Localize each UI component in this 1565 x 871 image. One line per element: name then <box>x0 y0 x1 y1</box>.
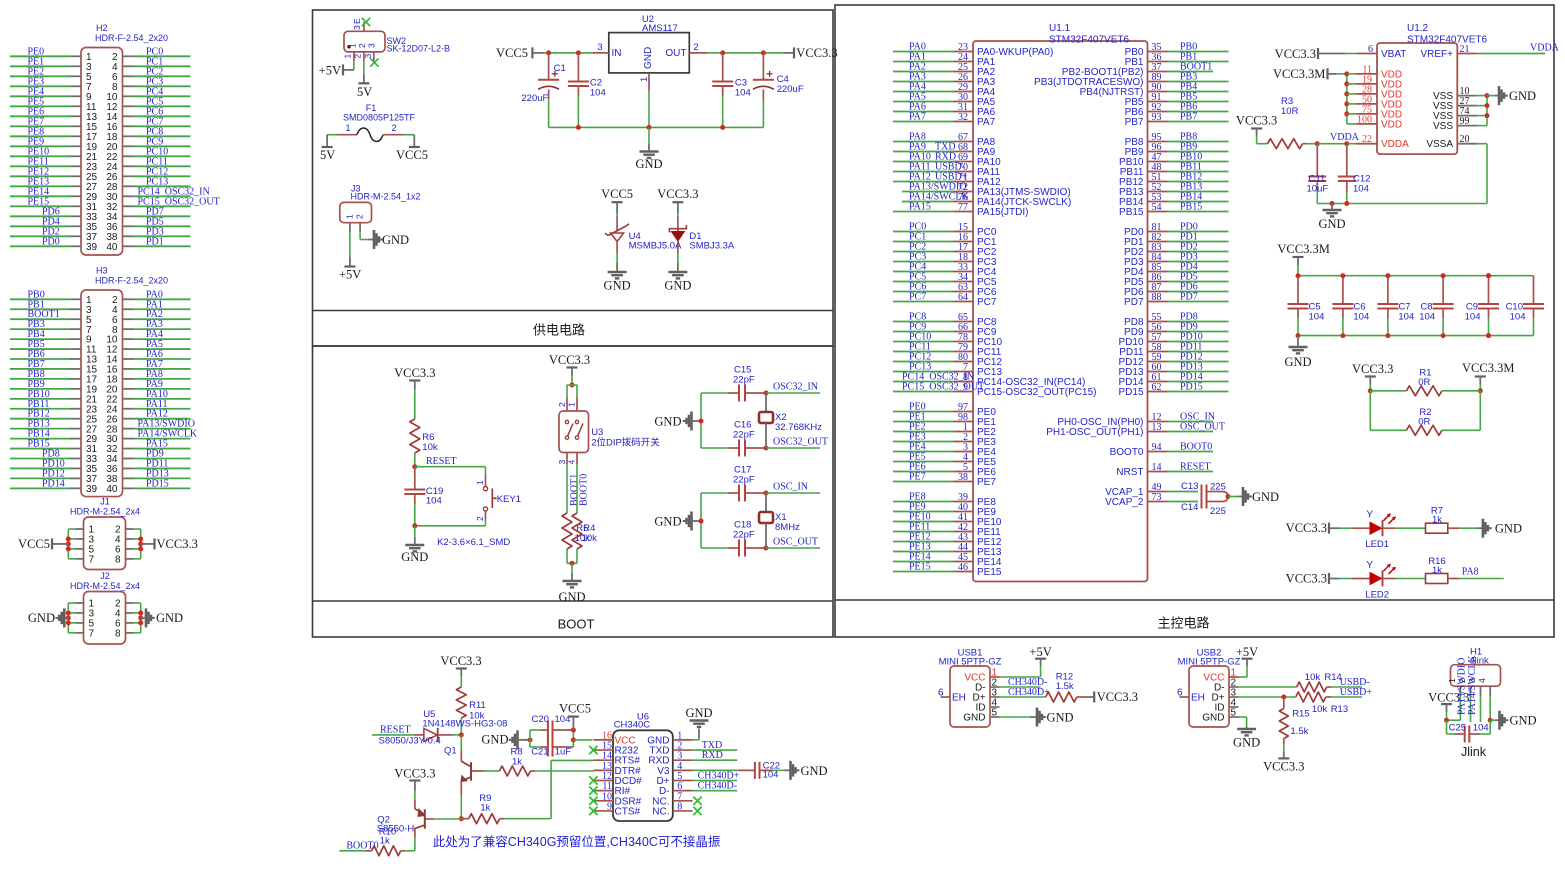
svg-text:OSC32_IN: OSC32_IN <box>773 382 818 393</box>
svg-text:GND: GND <box>643 47 654 69</box>
svg-text:3: 3 <box>352 25 362 30</box>
svg-text:20: 20 <box>1460 134 1470 145</box>
wire PD7 from U1.1 <box>1148 301 1168 303</box>
wire PB5 <box>10 348 70 350</box>
svg-text:225: 225 <box>1210 506 1226 517</box>
wire pin 1 J1 <box>76 528 84 530</box>
wire PD9 from U1.1 <box>1148 331 1168 333</box>
svg-text:RESET: RESET <box>380 724 411 735</box>
svg-text:VREF+: VREF+ <box>1420 49 1453 60</box>
svg-text:此处为了兼容CH340G预留位置,CH340C可不接晶振: 此处为了兼容CH340G预留位置,CH340C可不接晶振 <box>433 834 721 849</box>
svg-text:OUT: OUT <box>665 48 686 59</box>
svg-text:1: 1 <box>348 43 358 48</box>
wire VSS bus <box>1486 96 1488 126</box>
svg-text:40: 40 <box>106 242 118 253</box>
svg-text:GND: GND <box>604 279 631 293</box>
svg-text:46: 46 <box>958 562 968 573</box>
wire PC3 to U1.1 <box>893 261 954 263</box>
svg-text:PD7: PD7 <box>1124 297 1144 308</box>
wire PB0 <box>10 298 70 300</box>
svg-text:VCC3.3: VCC3.3 <box>157 537 198 551</box>
wire PA12 <box>123 418 134 420</box>
junction dots J2 <box>66 610 71 615</box>
wire pin 3 J1 <box>76 538 84 540</box>
wire bus left J1 <box>67 529 69 559</box>
svg-text:J1: J1 <box>100 497 110 507</box>
svg-text:OSC32_OUT: OSC32_OUT <box>773 437 828 448</box>
wire PC1 to U1.1 <box>893 241 954 243</box>
pin 2 of U2 <box>689 52 707 54</box>
svg-text:GND: GND <box>401 550 428 564</box>
pin 1 of J3 to +5V <box>349 223 351 233</box>
pin 2 of H1 <box>1470 686 1472 696</box>
crystal X1 8MHz <box>765 493 767 512</box>
wire PA15 to U1.1 <box>893 211 954 213</box>
node OSC_OUT <box>764 546 769 551</box>
svg-text:RESET: RESET <box>1180 462 1211 473</box>
wire PB9 <box>10 388 70 390</box>
svg-text:R15: R15 <box>1292 709 1309 720</box>
svg-text:J2: J2 <box>100 571 110 581</box>
svg-text:2: 2 <box>693 42 698 53</box>
wire VCC to U6 pin16 <box>573 739 592 741</box>
svg-text:OSC_OUT: OSC_OUT <box>773 537 818 548</box>
svg-text:VCC3.3M: VCC3.3M <box>1273 67 1325 81</box>
wire PE11 <box>10 165 70 167</box>
svg-text:VCC3.3: VCC3.3 <box>1275 47 1316 61</box>
svg-text:LED2: LED2 <box>1365 590 1389 601</box>
svg-text:+5V: +5V <box>319 64 341 78</box>
pin 27 VSS of U1.2 <box>1457 105 1477 107</box>
svg-text:GND: GND <box>156 611 183 625</box>
ground GND under C11/C12 <box>1331 204 1333 210</box>
capacitor C20 104 <box>530 729 541 731</box>
svg-text:C1: C1 <box>554 63 566 74</box>
wire PA14/SWCLK <box>123 438 134 440</box>
wire VCC5 to U2 IN <box>544 52 592 54</box>
node OSC32_IN <box>764 391 769 396</box>
svg-text:8: 8 <box>677 801 682 812</box>
frame BOOT section <box>313 346 834 637</box>
svg-text:1: 1 <box>343 54 353 59</box>
node RESET <box>412 464 417 469</box>
wire PC9 <box>123 145 134 147</box>
svg-text:3: 3 <box>367 43 377 48</box>
wire PC4 to U1.1 <box>893 271 954 273</box>
wire PC13 <box>123 185 134 187</box>
wire decoupling bottom rail <box>1298 335 1534 337</box>
pin 16 VCC of U6 <box>594 739 614 741</box>
wire H1 pin1 to VCC3.3 <box>1459 696 1461 720</box>
wire PD11 from U1.1 <box>1148 351 1168 353</box>
capacitor C22 104 at V3 <box>693 769 739 771</box>
wire pin 4 J2 <box>126 612 134 614</box>
svg-text:GND: GND <box>801 764 828 778</box>
svg-text:GND: GND <box>1284 355 1311 369</box>
wire RESET to KEY1 <box>415 466 486 468</box>
wire PD5 <box>123 225 134 227</box>
svg-text:Q1: Q1 <box>444 746 457 757</box>
capacitor C21 1uF <box>530 746 541 748</box>
switch SW2 <box>344 31 385 52</box>
svg-text:GND: GND <box>635 157 662 171</box>
svg-text:GND: GND <box>654 415 681 429</box>
wire PD8 <box>10 458 70 460</box>
svg-text:9: 9 <box>963 382 968 393</box>
wire PD5 from U1.1 <box>1148 281 1168 283</box>
wire Q2 base <box>425 818 435 820</box>
wire pin 2 J2 <box>126 602 134 604</box>
capacitor C10 104 <box>1533 276 1535 304</box>
svg-text:PD14: PD14 <box>42 478 65 489</box>
pin 2 TXD of U6 <box>673 749 693 751</box>
svg-text:Y: Y <box>1366 510 1373 521</box>
pin 2 of SW2 to 5V <box>363 52 365 61</box>
svg-text:8: 8 <box>115 628 121 639</box>
wire PB15 <box>10 448 70 450</box>
pin 49 VCAP_1 of U1.1 <box>1148 491 1168 493</box>
svg-text:GND: GND <box>1202 713 1224 724</box>
svg-text:SMBJ3.3A: SMBJ3.3A <box>689 241 735 252</box>
wire PD15 <box>123 487 134 489</box>
wire PE7 to U1.1 <box>893 481 954 483</box>
svg-text:VCC5: VCC5 <box>18 537 50 551</box>
junction dots J1 <box>66 536 71 541</box>
ground GND at J3 <box>368 239 374 241</box>
svg-text:77: 77 <box>958 202 968 213</box>
svg-text:GND: GND <box>1509 89 1536 103</box>
wire PC10 to U1.1 <box>893 341 954 343</box>
power flag +5V at SW2 <box>343 69 354 71</box>
svg-text:22: 22 <box>1362 134 1372 145</box>
svg-text:104: 104 <box>735 88 751 99</box>
svg-text:PB7: PB7 <box>1125 117 1144 128</box>
svg-text:Y: Y <box>1366 560 1373 571</box>
capacitor C15 22pF <box>701 392 728 394</box>
wire PE15 <box>10 205 70 207</box>
svg-text:VCC3.3: VCC3.3 <box>1286 521 1327 535</box>
wire pin 6 J1 <box>126 548 134 550</box>
svg-text:8MHz: 8MHz <box>775 522 800 533</box>
wire CH340D- <box>693 790 738 792</box>
power flag VCC3.3 at J1 <box>141 543 155 545</box>
svg-text:LED1: LED1 <box>1365 539 1389 550</box>
wire PB6 from U1.1 <box>1148 111 1168 113</box>
wire PA3 <box>123 328 134 330</box>
pin 4 of H1 <box>1489 686 1491 696</box>
svg-text:+5V: +5V <box>1029 645 1051 659</box>
svg-text:Jlink: Jlink <box>1461 745 1487 759</box>
svg-text:U1.1: U1.1 <box>1049 23 1071 34</box>
svg-text:1uF: 1uF <box>555 747 572 758</box>
svg-text:MINI 5PTP-GZ: MINI 5PTP-GZ <box>1178 657 1241 668</box>
wire RXD <box>693 759 738 761</box>
power flag VCC3.3 at R15 <box>1278 757 1289 759</box>
svg-text:PA8: PA8 <box>1462 567 1479 578</box>
svg-text:1: 1 <box>1447 678 1457 683</box>
wire PD0 <box>10 245 70 247</box>
wire PC0 <box>123 55 134 57</box>
resistor R15 1.5k <box>1283 697 1285 709</box>
svg-text:VCC3.3: VCC3.3 <box>394 366 435 380</box>
power flag VCC3.3 at R12 <box>1093 692 1095 703</box>
svg-text:BOOT0: BOOT0 <box>579 474 590 506</box>
junction dots ground rail <box>576 125 581 130</box>
zener diode U4 MSMBJ5.0A <box>616 213 618 217</box>
power flag VCC3.3 at U2 <box>793 47 795 58</box>
svg-text:99: 99 <box>1460 116 1470 127</box>
svg-text:C20: C20 <box>532 714 549 725</box>
wire pin 4 J1 <box>126 538 134 540</box>
junction C19 bottom <box>412 523 417 528</box>
wire H1 pin4 to GND <box>1489 696 1491 720</box>
wire PD12 <box>10 477 70 479</box>
wire PE3 to U1.1 <box>893 441 954 443</box>
svg-text:VCC3.3: VCC3.3 <box>1286 572 1327 586</box>
svg-text:VCC5: VCC5 <box>396 148 428 162</box>
wire pin 3 J2 <box>76 612 84 614</box>
wire PA1 to U1.1 <box>893 61 954 63</box>
svg-text:HDR-M-2.54_1x2: HDR-M-2.54_1x2 <box>351 192 421 202</box>
wire PA12 USBD+ to U1.1 <box>893 181 954 183</box>
regulator U2 AMS117 <box>609 33 690 73</box>
svg-text:104: 104 <box>590 88 606 99</box>
svg-text:AMS117: AMS117 <box>642 23 678 34</box>
pin 1 of SW2 <box>353 52 355 61</box>
svg-text:PD0: PD0 <box>42 236 60 247</box>
pin 2 of J3 to GND <box>359 223 361 233</box>
wire PA3 to U1.1 <box>893 81 954 83</box>
svg-text:VCC3.3: VCC3.3 <box>657 187 698 201</box>
svg-text:K2-3.6×6.1_SMD: K2-3.6×6.1_SMD <box>437 537 510 548</box>
wire PA13/SWDIO at H1 <box>1470 696 1472 722</box>
svg-text:PA15(JTDI): PA15(JTDI) <box>977 207 1029 218</box>
svg-text:GND: GND <box>1252 490 1279 504</box>
wire PE14 to U1.1 <box>893 561 954 563</box>
wire R4/R5 bottom join <box>566 549 568 563</box>
ground GND under U2 <box>640 150 659 152</box>
wire PE12 <box>10 175 70 177</box>
wire PB14 from U1.1 <box>1148 201 1168 203</box>
resistor R6 10k <box>414 389 416 419</box>
ic U6 CH340C <box>613 730 673 821</box>
wire PC6 <box>123 115 134 117</box>
svg-text:STM32F407VET6: STM32F407VET6 <box>1049 35 1129 46</box>
pin 11 VDD of U1.2 <box>1344 71 1349 76</box>
wire PE4 <box>10 95 70 97</box>
resistor R11 10k <box>456 687 466 718</box>
svg-text:HDR-F-2.54_2x20: HDR-F-2.54_2x20 <box>95 276 168 286</box>
wire PE13 to U1.1 <box>893 551 954 553</box>
wire PC10 <box>123 155 134 157</box>
wire U2 OUT to VCC3.3 <box>708 52 784 54</box>
pin 75 VDD of U1.2 <box>1344 111 1349 116</box>
svg-text:IN: IN <box>612 48 622 59</box>
svg-text:VCC3.3: VCC3.3 <box>394 767 435 781</box>
wire PB10 from U1.1 <box>1148 161 1168 163</box>
resistor R9 1k <box>461 818 468 820</box>
wire PB0 from U1.1 <box>1148 51 1168 53</box>
wire pin 2 J1 <box>126 528 134 530</box>
wire BOOT0 <box>576 464 578 513</box>
svg-text:BOOT: BOOT <box>558 617 595 632</box>
svg-text:VCC3.3: VCC3.3 <box>1352 362 1393 376</box>
wire PE13 <box>10 185 70 187</box>
wire BOOT0 from U1.1 <box>1148 451 1168 453</box>
wire PA13/SWDIO <box>123 428 134 430</box>
svg-text:HDR-F-2.54_2x20: HDR-F-2.54_2x20 <box>95 33 168 43</box>
pin 1 of U2 (GND) <box>648 73 650 91</box>
svg-text:VDDA: VDDA <box>1530 43 1560 54</box>
wire PB4 <box>10 338 70 340</box>
power flag +5V at J3 <box>344 265 355 267</box>
svg-text:BOOT0: BOOT0 <box>1110 447 1144 458</box>
wire PD3 <box>123 235 134 237</box>
svg-text:PC15 OSC32_OUT: PC15 OSC32_OUT <box>902 382 984 393</box>
svg-text:F1: F1 <box>366 103 377 113</box>
pin 4 V3 of U6 <box>673 769 693 771</box>
svg-text:10k: 10k <box>422 442 438 453</box>
svg-text:U3: U3 <box>591 427 603 438</box>
wire PB8 from U1.1 <box>1148 141 1168 143</box>
wire PD1 from U1.1 <box>1148 241 1168 243</box>
connector H1 Jlink <box>1451 665 1501 687</box>
wire VDD bus <box>1346 74 1348 124</box>
wire PD15 from U1.1 <box>1148 391 1168 393</box>
ground GND at U6 pin1 <box>693 739 699 741</box>
svg-text:E: E <box>352 18 362 24</box>
pin 28 VDD of U1.2 <box>1344 91 1349 96</box>
zener diode D1 SMBJ3.3A <box>677 213 679 217</box>
svg-text:PD1: PD1 <box>146 236 164 247</box>
svg-text:GND: GND <box>685 706 712 720</box>
svg-text:8: 8 <box>115 554 121 565</box>
wire PB7 from U1.1 <box>1148 121 1168 123</box>
node Q1 emitter junction <box>459 816 464 821</box>
svg-text:VCC3.3M: VCC3.3M <box>1462 361 1514 375</box>
wire PE9 to U1.1 <box>893 511 954 513</box>
wire pin 5 J2 <box>76 622 84 624</box>
wire PB6 <box>10 358 70 360</box>
svg-text:RXD: RXD <box>702 750 723 761</box>
wire PB13 <box>10 428 70 430</box>
wire USB2 D- to R14 <box>1239 686 1297 688</box>
junction VCAP <box>1227 496 1229 498</box>
wire PA9 <box>123 388 134 390</box>
wire PD6 <box>10 215 70 217</box>
wire U2 GND down <box>648 91 650 127</box>
svg-text:1k: 1k <box>1432 565 1442 576</box>
wire USB2 D+ to R13 <box>1239 696 1296 698</box>
capacitor C18 22pF <box>701 547 728 549</box>
frame main section <box>835 5 1554 637</box>
svg-text:S8050/J3Y/0.4: S8050/J3Y/0.4 <box>379 736 441 747</box>
wire USB2 VCC to +5V <box>1239 676 1248 678</box>
capacitor C2 104 <box>577 53 579 82</box>
wire PD4 <box>10 225 70 227</box>
svg-text:0R: 0R <box>1418 377 1430 388</box>
pin 5 D+ of U6 <box>673 780 693 782</box>
svg-text:CH340C: CH340C <box>614 720 651 731</box>
wire PA10 <box>123 398 134 400</box>
svg-text:C13: C13 <box>1181 481 1198 492</box>
connector USB2 MINI 5PTP-GZ <box>1189 666 1229 727</box>
wire PE10 to U1.1 <box>893 521 954 523</box>
svg-text:104: 104 <box>1419 312 1435 323</box>
resistor R14 10k <box>1297 682 1327 692</box>
svg-text:VCC3.3: VCC3.3 <box>1263 760 1304 774</box>
svg-text:GND: GND <box>1495 522 1522 536</box>
resistor R1 0R <box>1368 388 1373 393</box>
pin 1 of H1 <box>1459 686 1461 696</box>
pin 3 D+ of USB2 <box>1229 696 1239 698</box>
wire PE0 <box>10 55 70 57</box>
svg-text:1.5k: 1.5k <box>1056 681 1074 692</box>
wire PB11 <box>10 408 70 410</box>
wire PB8 <box>10 378 70 380</box>
svg-text:2位DIP拨码开关: 2位DIP拨码开关 <box>591 437 660 449</box>
svg-text:GND: GND <box>1510 714 1537 728</box>
svg-text:1.5k: 1.5k <box>1290 726 1308 737</box>
svg-text:5V: 5V <box>320 148 335 162</box>
svg-text:C21: C21 <box>531 747 548 758</box>
svg-text:1k: 1k <box>480 803 490 814</box>
wire pin 8 J1 <box>126 558 134 560</box>
svg-text:NC.: NC. <box>652 806 669 817</box>
svg-text:73: 73 <box>1152 492 1162 503</box>
pin 3 D+ of USB1 <box>990 696 1000 698</box>
capacitor C7 104 <box>1387 276 1389 304</box>
wire PD2 <box>10 235 70 237</box>
resistor R13 10k <box>1296 692 1326 702</box>
led LED2 <box>1339 578 1352 580</box>
svg-text:14: 14 <box>1152 462 1162 473</box>
wire PB14 <box>10 438 70 440</box>
wire PE1 to U1.1 <box>893 421 954 423</box>
svg-text:21: 21 <box>1460 44 1470 55</box>
svg-text:9: 9 <box>607 801 612 812</box>
wire analog ground rail <box>1317 203 1487 205</box>
svg-text:R13: R13 <box>1331 704 1348 715</box>
wire PD14 <box>10 487 70 489</box>
wire PE1 <box>10 65 70 67</box>
wire PA5 to U1.1 <box>893 101 954 103</box>
wire bracket X1 circuit <box>700 493 702 548</box>
svg-text:VCC3.3: VCC3.3 <box>1236 114 1277 128</box>
wire PD13 from U1.1 <box>1148 371 1168 373</box>
ground GND under C19 <box>414 526 416 538</box>
svg-text:CTS#: CTS# <box>615 806 641 817</box>
svg-text:104: 104 <box>1398 312 1414 323</box>
node OSC32_OUT <box>764 446 769 451</box>
ground GND under U4 <box>616 263 618 271</box>
svg-text:PE7: PE7 <box>909 472 926 483</box>
svg-text:22pF: 22pF <box>733 475 755 486</box>
node VCC3.3 / C25 <box>1444 718 1449 723</box>
svg-text:40: 40 <box>106 484 118 495</box>
pin E of SW2 (top, no connect) <box>363 22 365 31</box>
wire PD6 from U1.1 <box>1148 291 1168 293</box>
wire PA13/SWDIO to U1.1 <box>902 191 954 193</box>
svg-text:GND: GND <box>963 713 985 724</box>
svg-text:EH: EH <box>1191 693 1205 704</box>
node RESET/R11/Q1 <box>459 732 464 737</box>
svg-text:32.768KHz: 32.768KHz <box>775 422 822 433</box>
wire PE6 to U1.1 <box>893 471 954 473</box>
wire PC0 to U1.1 <box>893 231 954 233</box>
wire PC2 <box>123 75 134 77</box>
resistor R16 1k <box>1426 574 1448 584</box>
